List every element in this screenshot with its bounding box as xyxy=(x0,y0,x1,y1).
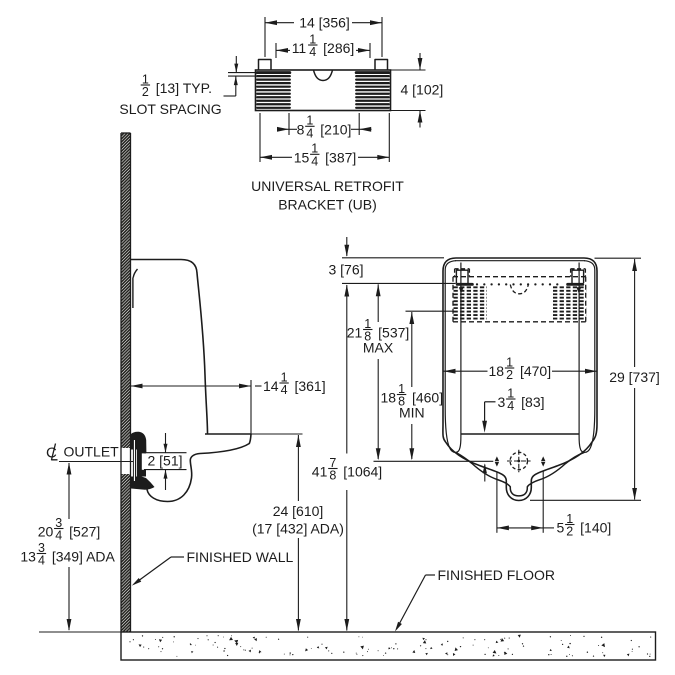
svg-text:MIN: MIN xyxy=(399,405,425,421)
svg-text:1: 1 xyxy=(506,355,513,369)
svg-text:1: 1 xyxy=(566,512,573,526)
svg-text:4: 4 xyxy=(38,554,45,568)
svg-text:24 [610]: 24 [610] xyxy=(273,503,324,519)
svg-text:SLOT SPACING: SLOT SPACING xyxy=(119,101,221,117)
svg-text:15: 15 xyxy=(294,149,310,165)
svg-text:OUTLET: OUTLET xyxy=(64,444,120,460)
svg-text:8: 8 xyxy=(329,469,336,483)
svg-text:[210]: [210] xyxy=(320,121,351,137)
svg-text:[1064]: [1064] xyxy=(343,464,382,480)
svg-text:[349] ADA: [349] ADA xyxy=(52,549,116,565)
svg-text:1: 1 xyxy=(507,386,514,400)
svg-text:4: 4 xyxy=(309,45,316,59)
svg-text:FINISHED WALL: FINISHED WALL xyxy=(187,549,294,565)
svg-text:[83]: [83] xyxy=(521,394,544,410)
svg-text:11: 11 xyxy=(292,40,307,56)
svg-text:7: 7 xyxy=(329,456,336,470)
svg-text:[387]: [387] xyxy=(325,149,356,165)
svg-text:1: 1 xyxy=(142,72,149,86)
svg-text:18: 18 xyxy=(381,390,397,406)
svg-text:[527]: [527] xyxy=(69,524,100,540)
svg-text:2: 2 xyxy=(142,85,149,99)
svg-text:14: 14 xyxy=(263,378,279,394)
svg-text:2: 2 xyxy=(506,368,513,382)
svg-text:[13] TYP.: [13] TYP. xyxy=(156,80,212,96)
svg-text:1: 1 xyxy=(364,317,371,331)
svg-text:41: 41 xyxy=(312,464,328,480)
svg-text:UNIVERSAL RETROFIT: UNIVERSAL RETROFIT xyxy=(251,178,404,194)
svg-text:18: 18 xyxy=(489,363,505,379)
svg-text:4: 4 xyxy=(281,383,288,397)
svg-text:1: 1 xyxy=(281,370,288,384)
svg-text:3: 3 xyxy=(38,541,45,555)
svg-text:BRACKET (UB): BRACKET (UB) xyxy=(278,197,377,213)
svg-text:4: 4 xyxy=(306,127,313,141)
svg-text:4: 4 xyxy=(311,155,318,169)
svg-text:[460]: [460] xyxy=(412,390,443,406)
svg-text:13: 13 xyxy=(20,549,36,565)
svg-text:29 [737]: 29 [737] xyxy=(609,369,660,385)
svg-text:21: 21 xyxy=(347,325,363,341)
svg-text:1: 1 xyxy=(398,382,405,396)
svg-text:[361]: [361] xyxy=(294,378,325,394)
svg-text:4: 4 xyxy=(401,82,409,98)
svg-text:FINISHED FLOOR: FINISHED FLOOR xyxy=(438,567,555,583)
svg-text:1: 1 xyxy=(311,142,318,156)
svg-text:20: 20 xyxy=(38,524,54,540)
svg-text:1: 1 xyxy=(306,114,313,128)
svg-text:1: 1 xyxy=(309,32,316,46)
svg-text:[537]: [537] xyxy=(378,325,409,341)
svg-text:3 [76]: 3 [76] xyxy=(328,262,363,278)
svg-text:[102]: [102] xyxy=(412,82,443,98)
svg-text:3: 3 xyxy=(55,516,62,530)
svg-text:4: 4 xyxy=(507,399,514,413)
svg-text:[470]: [470] xyxy=(520,363,551,379)
svg-text:8: 8 xyxy=(297,121,305,137)
svg-text:[140]: [140] xyxy=(580,520,611,536)
svg-text:(17 [432] ADA): (17 [432] ADA) xyxy=(252,521,344,537)
svg-text:MAX: MAX xyxy=(363,340,394,356)
svg-text:14 [356]: 14 [356] xyxy=(299,15,350,31)
svg-text:4: 4 xyxy=(55,529,62,543)
svg-text:2: 2 xyxy=(566,525,573,539)
svg-text:3: 3 xyxy=(498,394,506,410)
svg-text:[286]: [286] xyxy=(323,40,354,56)
svg-text:2 [51]: 2 [51] xyxy=(147,453,182,469)
svg-text:5: 5 xyxy=(557,520,565,536)
